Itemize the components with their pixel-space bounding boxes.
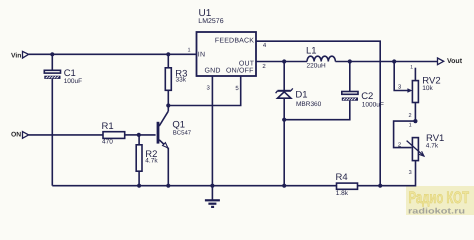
svg-text:MBR360: MBR360 (296, 101, 322, 108)
svg-text:FEEDBACK: FEEDBACK (215, 38, 254, 45)
svg-text:D1: D1 (295, 90, 307, 101)
wire FEEDBACK pin4 net (256, 41, 380, 186)
wire R1 to base node (125, 134, 139, 136)
potentiometer RV1 (407, 138, 424, 161)
junction Vin/C1 (50, 52, 54, 56)
wire RV1 wiper loop (394, 121, 416, 148)
svg-text:10k: 10k (422, 85, 433, 92)
svg-text:BC547: BC547 (173, 130, 192, 137)
wire Q1 emitter to ground rail (167, 148, 169, 186)
junction R2/ground rail (137, 184, 141, 188)
transistor Q1 (158, 106, 168, 149)
svg-text:OUT: OUT (239, 60, 255, 67)
svg-text:Q1: Q1 (172, 119, 185, 130)
potentiometer RV2 (407, 68, 418, 121)
svg-text:470: 470 (102, 138, 113, 145)
svg-text:4.7k: 4.7k (426, 142, 439, 149)
svg-text:ON/OFF: ON/OFF (226, 67, 254, 75)
svg-text:Vin: Vin (11, 53, 21, 60)
svg-text:1: 1 (409, 123, 412, 129)
watermark РадиоКОТ radiokot.ru (406, 186, 474, 216)
capacitor C2 (342, 62, 358, 101)
ground (205, 186, 220, 207)
svg-text:R1: R1 (102, 121, 114, 132)
svg-text:4.7k: 4.7k (145, 158, 158, 165)
wire D1 anode to ground rail (283, 98, 285, 186)
port ON (23, 132, 29, 139)
svg-text:ON: ON (11, 132, 21, 139)
junction Vin/R3 (166, 52, 170, 56)
resistor R1 (103, 132, 125, 139)
IC U1 box (197, 32, 257, 76)
inductor L1 (307, 56, 335, 61)
svg-text:3: 3 (409, 170, 412, 176)
junction OUT/D1 (282, 59, 286, 63)
svg-text:L1: L1 (306, 46, 317, 57)
junction R3/collector/ON-OFF (166, 103, 170, 107)
junction C2/D1 elbow (282, 118, 286, 122)
wire ground rail (52, 185, 336, 187)
wire base node to Q1 base (139, 134, 156, 136)
wire C2 to D1 anode (284, 101, 350, 120)
svg-text:1: 1 (410, 64, 413, 70)
resistor R3 (165, 54, 171, 105)
wire ON/OFF pin5 to collector node (168, 76, 240, 106)
svg-text:Vout: Vout (447, 58, 463, 65)
wire Vout tap to RV2 wiper (394, 62, 407, 91)
svg-text:IN: IN (198, 52, 205, 59)
resistor R4 (337, 183, 358, 189)
resistor R2 (136, 135, 142, 186)
wire ON input to R1 (29, 134, 103, 136)
svg-text:100uF: 100uF (64, 78, 82, 85)
port Vout (438, 58, 444, 65)
svg-text:GND: GND (205, 68, 221, 75)
junction GND/ground rail (210, 184, 214, 188)
svg-text:33k: 33k (176, 77, 187, 84)
capacitor C1 (44, 54, 60, 79)
junction Vout divider tap (392, 59, 396, 63)
junction RV2/RV1 (413, 119, 417, 123)
junction OUT/C2 (348, 59, 352, 63)
junction R1/R2/base (137, 133, 141, 137)
svg-text:1: 1 (187, 48, 190, 54)
svg-text:Радио КОТ: Радио КОТ (409, 189, 470, 207)
svg-text:2: 2 (408, 113, 411, 119)
wire C1 to ground rail (51, 79, 53, 186)
svg-text:1.8k: 1.8k (336, 190, 349, 197)
junction emitter/ground rail (166, 184, 170, 188)
wire R4 to RV1 bottom (358, 161, 416, 186)
wire Vin net (29, 53, 197, 55)
wire OUT pin2 to L1 (256, 61, 307, 63)
wire GND pin3 to ground rail (211, 76, 213, 186)
port Vin (23, 51, 29, 58)
svg-text:1000uF: 1000uF (362, 101, 384, 108)
junction D1/ground rail (282, 184, 286, 188)
svg-text:R4: R4 (336, 172, 348, 183)
wire L1 to Vout (335, 61, 437, 63)
svg-text:220uH: 220uH (307, 63, 326, 70)
junction FEEDBACK/R4/RV1 (378, 184, 382, 188)
svg-text:radiokot.ru: radiokot.ru (408, 207, 465, 216)
diode D1 (276, 62, 293, 99)
svg-text:LM2576: LM2576 (198, 18, 223, 25)
